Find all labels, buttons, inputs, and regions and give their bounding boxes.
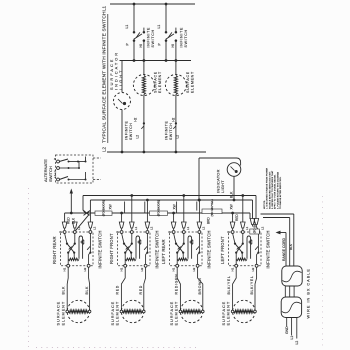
surface element (RIGHT FRONT) xyxy=(120,300,145,322)
wire GND lead xyxy=(286,318,288,327)
label RANGE CORD xyxy=(282,237,286,261)
junction pilot bus x166 xyxy=(165,59,168,62)
wire L1 feed (LEFT FRONT) xyxy=(241,194,244,222)
connector L2 (RIGHT REAR) xyxy=(88,222,93,230)
svg-text:L2: L2 xyxy=(102,146,107,152)
svg-text:INFINITE: INFINITE xyxy=(179,27,183,48)
svg-text:L2: L2 xyxy=(176,135,180,139)
indicator light DS2 xyxy=(227,163,241,177)
label H2 terminal (RIGHT REAR) xyxy=(83,267,87,271)
wire indicator light to bus BLK xyxy=(233,176,235,200)
label H1 terminal (RIGHT REAR) xyxy=(62,267,66,271)
scan artifact dotted column right xyxy=(322,196,324,348)
wire H1 to element (RIGHT REAR) xyxy=(67,267,68,310)
infinite switch SW-A (typical) xyxy=(133,28,145,42)
svg-text:H2: H2 xyxy=(83,267,87,271)
svg-text:BLK: BLK xyxy=(61,286,65,295)
svg-text:RED: RED xyxy=(116,285,120,295)
svg-text:SOURCE BEFORE SERVICING UNIT.: SOURCE BEFORE SERVICING UNIT. xyxy=(269,171,271,209)
label SURFACE ELEMENT (LEFT FRONT) xyxy=(221,301,231,326)
junction pilot bus x145 xyxy=(143,59,146,62)
label P terminal (RIGHT FRONT) xyxy=(115,231,119,233)
wire riser band 3 xyxy=(176,202,178,213)
wire bus rail P (y213) xyxy=(65,213,250,222)
svg-text:L2: L2 xyxy=(136,135,140,139)
junction pilot bus x134 xyxy=(133,59,136,62)
wire cord conductor B xyxy=(263,218,290,267)
svg-text:INFINITE SWITCH: INFINITE SWITCH xyxy=(154,230,159,268)
svg-text:BROWN: BROWN xyxy=(198,278,202,295)
wire P SW-B to pilot bus xyxy=(165,41,167,61)
junction pilot bus x177 xyxy=(175,59,178,62)
wire bus rail L2 (y200) xyxy=(90,200,252,219)
label L2 terminal (RIGHT FRONT) xyxy=(150,226,154,230)
svg-text:3. PLEASE RETURN THIS DIAGRAM: 3. PLEASE RETURN THIS DIAGRAM xyxy=(276,171,279,209)
svg-text:H1: H1 xyxy=(62,267,66,271)
label INFINITE SWITCH (RIGHT FRONT) xyxy=(154,230,159,268)
label L1 terminal (RIGHT FRONT) xyxy=(134,226,138,230)
svg-text:INFINITE SWITCH: INFINITE SWITCH xyxy=(265,230,270,268)
wire L1 feed (LEFT REAR) xyxy=(182,194,185,222)
label XW splice 1 xyxy=(109,204,113,209)
label H1 terminal (RIGHT FRONT) xyxy=(119,267,123,271)
junction L2 rail x144 xyxy=(143,151,146,154)
svg-text:1. DISCONNECT RANGE FROM POWER: 1. DISCONNECT RANGE FROM POWER xyxy=(266,167,269,209)
junction on L1 rail at x134 xyxy=(133,3,136,6)
wire H1 to element (LEFT FRONT) xyxy=(233,267,237,310)
scan artifact dotted column left xyxy=(28,188,30,348)
svg-text:BLK: BLK xyxy=(72,217,76,224)
svg-text:RED: RED xyxy=(139,285,143,295)
connector P (RIGHT REAR) xyxy=(62,222,67,230)
junction indicator right on rail xyxy=(233,199,236,202)
junction L2 rail x122 xyxy=(121,151,124,154)
label L2 terminal (LEFT REAR) xyxy=(202,226,206,230)
label L2 terminal (LEFT FRONT) xyxy=(261,226,265,230)
arrow to range cord xyxy=(276,231,287,266)
svg-text:L2: L2 xyxy=(295,341,299,345)
svg-text:ELEMENT: ELEMENT xyxy=(226,301,231,326)
label INFINITE SWITCH (SW-A) xyxy=(146,27,154,48)
svg-text:L2: L2 xyxy=(93,226,97,230)
label INFINITE SWITCH L2 H2 (E-B riser) xyxy=(165,117,180,140)
infinite switch LEFT FRONT (dashed box) xyxy=(229,231,262,268)
svg-text:HI: HI xyxy=(171,44,175,47)
label XW splice 2 xyxy=(173,204,177,209)
connector pair on bus rail3 xyxy=(83,210,90,215)
alternate switch S2 (dashed box) xyxy=(56,155,94,183)
label L2 (cord) xyxy=(295,341,299,345)
svg-text:H1: H1 xyxy=(171,267,175,271)
cable clamp lower (BX) xyxy=(281,297,301,318)
svg-text:BLK/YEL: BLK/YEL xyxy=(250,275,254,294)
label L1 (cord) xyxy=(290,336,294,340)
svg-text:GND: GND xyxy=(285,326,289,334)
label wire colour RED xyxy=(116,285,120,295)
svg-text:(TO BK/OR): (TO BK/OR) xyxy=(102,200,106,216)
label INFINITE SWITCH (SW-B) xyxy=(179,27,187,48)
svg-text:RIGHT REAR: RIGHT REAR xyxy=(52,236,57,264)
label HI terminal SW-B xyxy=(171,44,175,47)
label L2 terminal (RIGHT REAR) xyxy=(93,226,97,230)
surface element (LEFT REAR) xyxy=(179,300,204,322)
svg-text:HI: HI xyxy=(139,44,143,47)
label XW splice 3 xyxy=(230,204,234,209)
wire HI SW-B down to element 2 xyxy=(175,41,177,75)
arrow alternate switch feed xyxy=(70,189,73,214)
label P terminal (LEFT FRONT) xyxy=(226,231,230,233)
label L1 terminal (LEFT REAR) xyxy=(186,226,190,230)
svg-text:RED/GRN: RED/GRN xyxy=(175,273,179,294)
connector P (RIGHT FRONT) xyxy=(119,222,124,230)
connector L1 (RIGHT FRONT) xyxy=(130,222,135,230)
wire L2 rail (typical) xyxy=(107,151,206,153)
label HI terminal SW-A xyxy=(139,44,143,47)
label SURFACE ELEMENT (E-B) xyxy=(186,71,195,93)
connector L1 (LEFT FRONT) xyxy=(241,222,246,230)
label GND xyxy=(285,326,289,334)
label BRD above LEFT REAR xyxy=(207,217,211,224)
svg-text:ELEMENT: ELEMENT xyxy=(158,71,162,93)
label BLK (indicator) xyxy=(230,191,234,198)
connector P (LEFT REAR) xyxy=(171,222,176,230)
label BLK above RIGHT REAR xyxy=(72,217,76,224)
label WIRE IN BX CABLE xyxy=(306,268,310,318)
node L1 label (typical) xyxy=(102,5,107,11)
svg-text:H1: H1 xyxy=(119,267,123,271)
label INFINITE SWITCH (LEFT REAR) xyxy=(206,230,211,268)
surface element E-B (typical) xyxy=(165,75,186,96)
label L1 terminal (LEFT FRONT) xyxy=(245,226,249,230)
wire H1 to element (LEFT REAR) xyxy=(177,267,180,310)
svg-text:BLK: BLK xyxy=(85,286,89,295)
surface element (RIGHT REAR) xyxy=(66,300,91,322)
wire cord conductor A (top) xyxy=(261,214,294,266)
svg-text:L1: L1 xyxy=(245,226,249,230)
label SURFACE ELEMENT (E-A) xyxy=(154,71,163,93)
wire H2 to element (RIGHT REAR) xyxy=(89,267,90,310)
label SURFACE ELEMENT (RIGHT REAR) xyxy=(56,301,66,326)
svg-text:RIGHT FRONT: RIGHT FRONT xyxy=(109,233,114,264)
svg-text:SWITCH: SWITCH xyxy=(48,166,53,182)
svg-text:L1: L1 xyxy=(290,336,294,340)
wire L2 lead xyxy=(296,318,298,339)
label RIGHT FRONT xyxy=(109,233,114,264)
label L2 (alternate switch) xyxy=(53,174,57,178)
svg-text:LIGHT: LIGHT xyxy=(220,180,225,193)
connector L1 (RIGHT REAR) xyxy=(73,222,78,230)
svg-text:INFINITE SWITCH: INFINITE SWITCH xyxy=(97,230,102,268)
label H1 terminal (LEFT REAR) xyxy=(171,267,175,271)
svg-text:H2: H2 xyxy=(171,117,175,121)
svg-text:SWITCH: SWITCH xyxy=(169,123,173,140)
connector P (LEFT FRONT) xyxy=(230,222,235,230)
label H2 terminal (RIGHT FRONT) xyxy=(140,267,144,271)
junction on L1 rail at x166 xyxy=(165,3,168,6)
connector L2 spare (LEFT FRONT) xyxy=(250,219,258,231)
svg-text:H2: H2 xyxy=(140,267,144,271)
label wire colour BLK/YEL xyxy=(250,275,254,294)
scan artifact dotted row bottom xyxy=(36,347,200,349)
svg-text:TYPICAL SURFACE ELEMENT WITH I: TYPICAL SURFACE ELEMENT WITH INFINITE SW… xyxy=(102,11,108,143)
svg-text:RED: RED xyxy=(235,214,239,221)
svg-text:RANGE CORD: RANGE CORD xyxy=(282,237,286,261)
wire riser band 2 xyxy=(144,202,146,213)
svg-text:ELEMENT: ELEMENT xyxy=(191,71,195,93)
svg-text:LEFT FRONT: LEFT FRONT xyxy=(220,236,225,264)
label P (alternate switch) xyxy=(53,158,57,160)
junction L2 rail x177 xyxy=(175,151,178,154)
svg-text:XW: XW xyxy=(173,204,177,209)
connector L1 (LEFT REAR) xyxy=(182,222,187,230)
svg-text:L1: L1 xyxy=(102,5,107,11)
wire L1 feed (RIGHT FRONT) xyxy=(130,194,133,222)
wire H2 to element (LEFT REAR) xyxy=(198,267,203,310)
svg-text:(TO BK/OR): (TO BK/OR) xyxy=(157,200,161,216)
wire H1 to element (RIGHT FRONT) xyxy=(121,267,125,310)
svg-text:INFINITE: INFINITE xyxy=(165,121,169,140)
label L1 terminal (RIGHT REAR) xyxy=(77,226,81,230)
label wire colour BROWN xyxy=(198,278,202,295)
svg-text:SWITCH: SWITCH xyxy=(129,123,133,140)
label P terminal SW-B xyxy=(158,43,162,46)
label P terminal SW-A xyxy=(126,43,130,46)
svg-text:L1: L1 xyxy=(186,226,190,230)
svg-text:RED: RED xyxy=(67,217,71,224)
label L1 terminal SW-B xyxy=(157,25,161,29)
svg-text:P: P xyxy=(53,158,57,160)
svg-text:LEFT REAR: LEFT REAR xyxy=(161,239,166,264)
label INFINITE SWITCH (LEFT FRONT) xyxy=(265,230,270,268)
svg-text:ELEMENT: ELEMENT xyxy=(115,301,120,326)
title TYPICAL SURFACE ELEMENT WITH INFINITE SWITCH xyxy=(102,11,108,143)
wire HI SW-A down to element 1 xyxy=(143,41,145,75)
svg-text:H2: H2 xyxy=(133,117,137,121)
svg-text:L1: L1 xyxy=(125,25,129,29)
label LEFT REAR xyxy=(161,239,166,264)
wire H2 to element (RIGHT FRONT) xyxy=(144,267,146,310)
boxed label TO BK (near LEFT FRONT) xyxy=(250,222,260,234)
infinite switch RIGHT REAR (dashed box) xyxy=(61,231,94,268)
svg-text:WIRE IN BX CABLE: WIRE IN BX CABLE xyxy=(306,268,310,318)
svg-text:BLK: BLK xyxy=(289,243,293,250)
svg-text:P: P xyxy=(58,231,62,233)
svg-text:BLK: BLK xyxy=(230,191,234,198)
label SURFACE ELEMENT (LEFT REAR) xyxy=(169,301,179,326)
svg-text:SURFACE: SURFACE xyxy=(186,71,190,93)
svg-text:P: P xyxy=(167,231,171,233)
connector L2 (LEFT REAR) xyxy=(197,222,202,230)
label L1 terminal SW-A xyxy=(125,25,129,29)
svg-text:L1: L1 xyxy=(53,170,57,174)
wire indicator branch left xyxy=(199,158,241,200)
label L1 (alternate switch) xyxy=(53,170,57,174)
label H2 terminal (LEFT FRONT) xyxy=(251,267,255,271)
label P terminal (LEFT REAR) xyxy=(167,231,171,233)
wire P feed (LEFT FRONT) xyxy=(231,212,234,222)
wire L2 feed (RIGHT FRONT) xyxy=(146,199,149,222)
wire bus rail L1 (y195.5) xyxy=(83,196,256,219)
infinite switch RIGHT FRONT (dashed box) xyxy=(118,231,151,268)
wire element E-A to L2 rail xyxy=(143,95,145,153)
label RED above RIGHT REAR xyxy=(67,217,71,224)
label RED above LEFT FRONT xyxy=(235,214,239,221)
label SURFACE INDICATOR LIGHT xyxy=(109,51,123,90)
label INFINITE SWITCH (RIGHT REAR) xyxy=(97,230,102,268)
svg-text:L2: L2 xyxy=(261,226,265,230)
wire L2 feed (RIGHT REAR) xyxy=(89,216,91,223)
svg-text:XW: XW xyxy=(109,204,113,209)
svg-text:LIGHT: LIGHT xyxy=(118,69,123,90)
svg-text:H2: H2 xyxy=(251,267,255,271)
label wire colour BLK xyxy=(85,286,89,295)
svg-text:BRD: BRD xyxy=(207,217,211,224)
svg-text:TO RANGE AFTER SERVICING.: TO RANGE AFTER SERVICING. xyxy=(279,176,282,209)
label P terminal (RIGHT REAR) xyxy=(58,231,62,233)
svg-text:ELEMENT: ELEMENT xyxy=(60,301,65,326)
label H2 terminal (LEFT REAR) xyxy=(192,267,196,271)
boxed label TO BK/OR 1 xyxy=(95,200,112,216)
cable clamp upper (BX) xyxy=(282,266,302,286)
wire drop L1 to switch 2 xyxy=(165,4,167,32)
svg-text:BLK/YEL: BLK/YEL xyxy=(227,275,231,294)
svg-text:INFINITE SWITCH: INFINITE SWITCH xyxy=(206,230,211,268)
svg-text:H2: H2 xyxy=(192,267,196,271)
svg-text:SWITCH: SWITCH xyxy=(151,29,155,47)
notes NOTICE block xyxy=(264,167,282,209)
svg-text:L2: L2 xyxy=(202,226,206,230)
wire P feed (RIGHT FRONT) xyxy=(120,212,123,222)
wire H2 to element (LEFT FRONT) xyxy=(255,267,257,310)
label wire colour RED xyxy=(139,285,143,295)
wire L1 lead xyxy=(291,318,293,336)
svg-text:NOTICE:: NOTICE: xyxy=(264,200,266,209)
wire pilot bus rail xyxy=(120,61,192,93)
label INFINITE SWITCH L2 H2 (E-A riser) xyxy=(125,117,146,140)
svg-text:P: P xyxy=(226,231,230,233)
wire cable conductors between clamps xyxy=(285,286,294,297)
wire L1 rail (typical) xyxy=(110,3,195,5)
label RIGHT REAR xyxy=(52,236,57,264)
svg-text:2. REFER ONLY TO FEATURES THAT: 2. REFER ONLY TO FEATURES THAT xyxy=(271,170,274,209)
svg-text:L2: L2 xyxy=(150,226,154,230)
svg-text:XW: XW xyxy=(230,204,234,209)
label INDICATOR LIGHT xyxy=(215,169,225,193)
surface element (LEFT FRONT) xyxy=(231,300,256,322)
label SURFACE ELEMENT (RIGHT FRONT) xyxy=(110,301,120,326)
label wire colour RED/GRN xyxy=(175,273,179,294)
svg-text:L1: L1 xyxy=(157,25,161,29)
wire alternate switch stub right bottom xyxy=(93,179,101,181)
svg-text:INFINITE: INFINITE xyxy=(146,27,150,48)
boxed label TO BK/OR 2 xyxy=(150,200,168,216)
label ALTERNATE SWITCH xyxy=(43,159,53,182)
wire L2 feed (LEFT REAR) xyxy=(198,199,201,222)
svg-text:INFINITE: INFINITE xyxy=(125,121,129,140)
wire P feed (LEFT REAR) xyxy=(172,212,175,222)
wire element E-B to L2 rail xyxy=(175,95,177,153)
svg-text:P: P xyxy=(115,231,119,233)
svg-text:(TO BK/YEL): (TO BK/YEL) xyxy=(210,199,214,216)
label wire colour BLK/YEL xyxy=(227,275,231,294)
wire riser band 4 xyxy=(196,202,198,211)
svg-text:APPLY TO YOUR MODEL RANGE.: APPLY TO YOUR MODEL RANGE. xyxy=(274,174,277,209)
wire alternate switch stub right top xyxy=(93,157,101,159)
surface element E-A (typical) xyxy=(133,75,154,96)
svg-text:L2: L2 xyxy=(53,174,57,178)
wire drop L1 to switch 1 xyxy=(133,4,135,32)
svg-text:H1: H1 xyxy=(230,267,234,271)
svg-text:L1: L1 xyxy=(134,226,138,230)
surface indicator light DS1 (typical) xyxy=(114,93,131,110)
infinite switch SW-B (typical) xyxy=(165,28,177,42)
label BLK (cord) xyxy=(289,243,293,250)
wire L1 diagonal feed (RIGHT REAR) xyxy=(76,214,90,230)
infinite switch LEFT REAR (dashed box) xyxy=(170,231,203,268)
wire P SW-A to pilot bus xyxy=(133,41,135,61)
node L2 label (typical) xyxy=(102,146,107,152)
junction indicator left on rail xyxy=(198,199,201,202)
label H1 terminal (LEFT FRONT) xyxy=(230,267,234,271)
label wire colour BLK xyxy=(61,286,65,295)
svg-text:ELEMENT: ELEMENT xyxy=(174,301,179,326)
wire light to L2 rail xyxy=(121,110,123,153)
svg-text:SWITCH: SWITCH xyxy=(184,29,188,47)
wire riser band 1 xyxy=(124,202,126,213)
boxed label TO BK/YEL xyxy=(202,199,222,216)
junction feed on bus rail3 xyxy=(70,212,73,215)
svg-text:(TO BK): (TO BK) xyxy=(253,222,257,233)
label LEFT FRONT xyxy=(220,236,225,264)
connector L2 (RIGHT FRONT) xyxy=(145,222,150,230)
svg-text:SURFACE: SURFACE xyxy=(154,71,158,93)
